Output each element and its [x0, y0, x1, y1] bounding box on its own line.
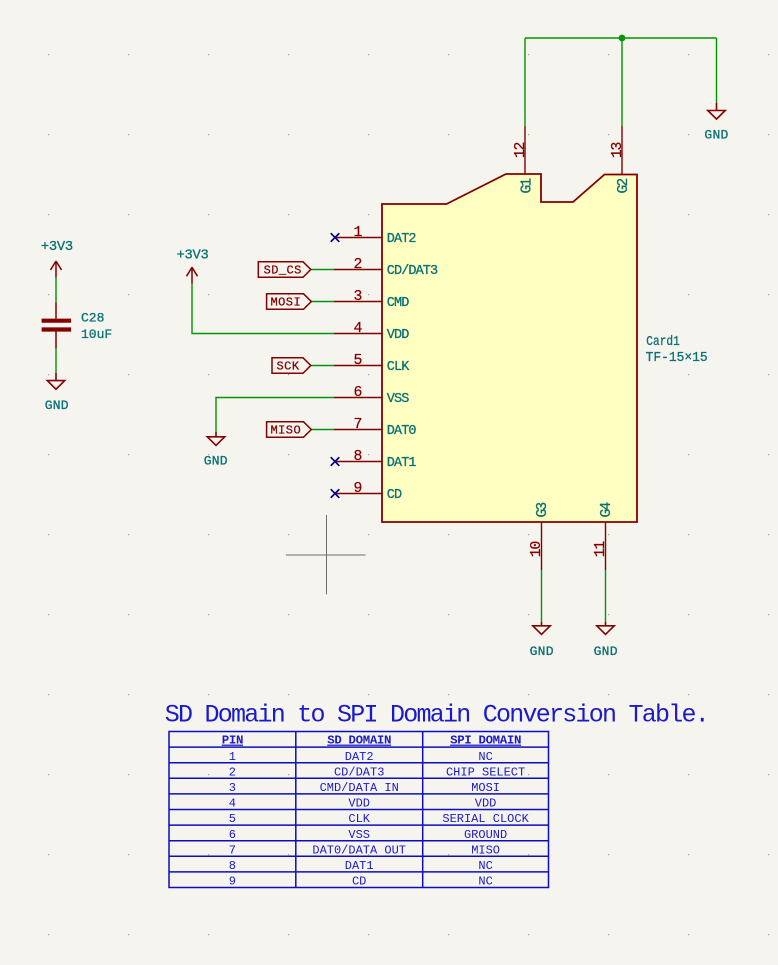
svg-text:VSS: VSS	[348, 828, 370, 842]
svg-text:10uF: 10uF	[81, 327, 112, 342]
svg-text:G3: G3	[535, 502, 551, 517]
svg-text:GND: GND	[704, 128, 728, 143]
svg-text:6: 6	[354, 385, 363, 401]
svg-text:10: 10	[529, 542, 545, 558]
svg-text:3: 3	[229, 781, 236, 795]
svg-text:6: 6	[229, 828, 236, 842]
svg-text:VDD: VDD	[348, 797, 370, 811]
svg-text:9: 9	[229, 875, 236, 889]
svg-text:SPI DOMAIN: SPI DOMAIN	[450, 734, 521, 748]
svg-text:12: 12	[513, 143, 529, 159]
svg-text:CMD: CMD	[387, 296, 409, 311]
svg-text:5: 5	[354, 353, 363, 369]
svg-text:VDD: VDD	[475, 797, 497, 811]
svg-text:SCK: SCK	[277, 360, 300, 374]
svg-text:G4: G4	[599, 502, 615, 517]
svg-text:CHIP SELECT: CHIP SELECT	[446, 765, 525, 779]
svg-text:PIN: PIN	[222, 734, 243, 748]
svg-text:TF-15×15: TF-15×15	[646, 351, 708, 366]
svg-text:4: 4	[229, 797, 236, 811]
svg-text:2: 2	[229, 765, 236, 779]
svg-text:CLK: CLK	[387, 360, 410, 375]
svg-text:11: 11	[593, 541, 609, 558]
svg-text:CD: CD	[387, 488, 402, 503]
svg-text:1: 1	[229, 750, 236, 764]
svg-text:GND: GND	[204, 454, 228, 469]
svg-text:SD Domain to SPI Domain Conver: SD Domain to SPI Domain Conversion Table…	[165, 701, 710, 730]
svg-text:3: 3	[354, 289, 363, 305]
svg-text:MOSI: MOSI	[471, 781, 500, 795]
svg-text:9: 9	[354, 481, 363, 497]
svg-text:NC: NC	[478, 859, 492, 873]
svg-text:1: 1	[354, 225, 363, 241]
svg-text:SD_CS: SD_CS	[264, 264, 302, 278]
svg-text:G2: G2	[616, 178, 632, 193]
svg-text:7: 7	[354, 417, 363, 433]
svg-text:CD/DAT3: CD/DAT3	[387, 264, 438, 279]
svg-text:5: 5	[229, 812, 236, 826]
svg-text:GND: GND	[594, 644, 618, 659]
svg-text:8: 8	[354, 449, 363, 465]
svg-text:7: 7	[229, 843, 236, 857]
svg-text:NC: NC	[478, 875, 492, 889]
svg-text:CD/DAT3: CD/DAT3	[334, 765, 384, 779]
svg-text:DAT0: DAT0	[387, 424, 417, 439]
svg-text:DAT1: DAT1	[345, 859, 374, 873]
svg-text:MISO: MISO	[270, 424, 301, 438]
svg-text:+3V3: +3V3	[41, 240, 73, 255]
svg-text:MOSI: MOSI	[270, 296, 301, 310]
svg-text:DAT2: DAT2	[345, 750, 374, 764]
svg-text:DAT1: DAT1	[387, 456, 417, 471]
svg-text:CMD/DATA IN: CMD/DATA IN	[320, 781, 399, 795]
svg-text:GND: GND	[45, 398, 69, 413]
svg-text:CD: CD	[352, 875, 366, 889]
svg-text:DAT2: DAT2	[387, 232, 417, 247]
svg-text:Card1: Card1	[646, 335, 680, 350]
svg-text:VDD: VDD	[387, 328, 409, 343]
svg-text:GROUND: GROUND	[464, 828, 507, 842]
svg-text:DAT0/DATA OUT: DAT0/DATA OUT	[312, 843, 406, 857]
svg-text:13: 13	[610, 143, 626, 159]
svg-text:GND: GND	[530, 644, 554, 659]
svg-text:G1: G1	[519, 178, 535, 193]
svg-text:2: 2	[354, 257, 363, 273]
svg-text:NC: NC	[478, 750, 492, 764]
svg-text:SD DOMAIN: SD DOMAIN	[327, 734, 391, 748]
svg-text:CLK: CLK	[348, 812, 370, 826]
svg-text:C28: C28	[81, 311, 104, 326]
svg-text:SERIAL CLOCK: SERIAL CLOCK	[442, 812, 529, 826]
svg-text:VSS: VSS	[387, 392, 409, 407]
svg-text:4: 4	[354, 321, 363, 337]
svg-text:8: 8	[229, 859, 236, 873]
svg-text:+3V3: +3V3	[177, 248, 209, 263]
svg-text:MISO: MISO	[471, 843, 500, 857]
